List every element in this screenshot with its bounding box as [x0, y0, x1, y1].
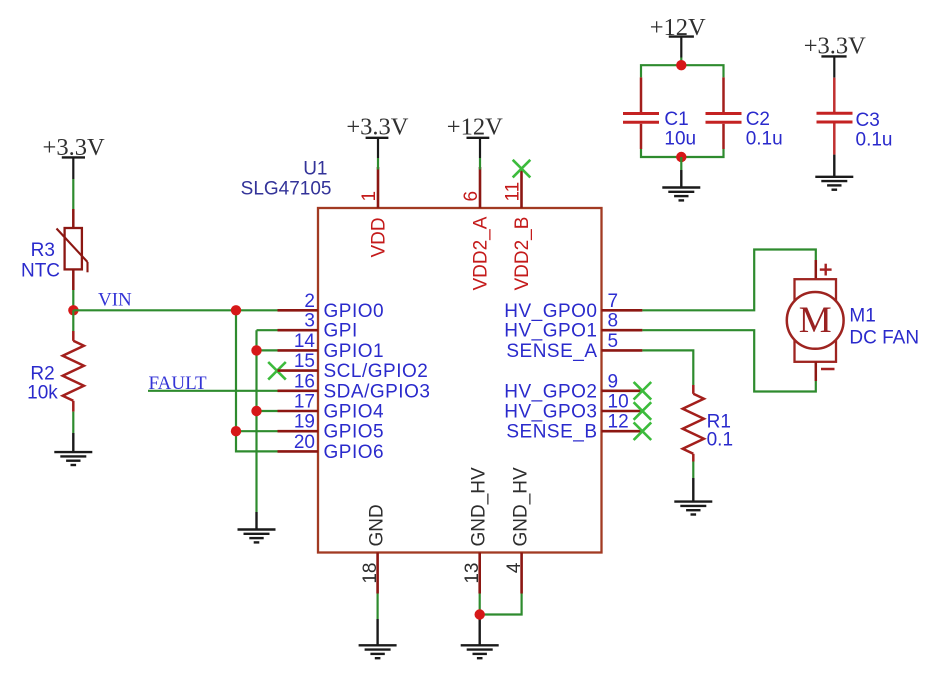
- wire branch to pin 19: [236, 430, 278, 432]
- svg-text:15: 15: [294, 351, 315, 372]
- power +3.3V (C3): [804, 32, 866, 77]
- wire vertical from VIN branch to pin 20 row: [236, 310, 278, 451]
- junction node VIN: [68, 305, 78, 315]
- junction at VIN / vertical: [231, 305, 241, 315]
- svg-text:4: 4: [504, 562, 525, 573]
- resistor R1: [683, 385, 704, 462]
- wire pin 7 to motor +: [642, 250, 815, 311]
- pin 16 SDA/GPIO3: [278, 371, 431, 402]
- wire pin 5 to R1: [642, 350, 693, 385]
- wire branch to pin 14: [257, 349, 278, 351]
- svg-text:M1: M1: [849, 305, 875, 326]
- ground (pin 18): [359, 619, 397, 658]
- svg-text:10: 10: [608, 392, 629, 413]
- svg-text:C3: C3: [856, 110, 880, 131]
- svg-text:20: 20: [294, 432, 315, 453]
- motor M1: [787, 260, 844, 381]
- wire FAULT to pin 16: [148, 390, 278, 392]
- no-connect X pin 12: [634, 422, 652, 440]
- svg-text:HV_GPO1: HV_GPO1: [504, 321, 597, 342]
- pin 4 GND_HV: [504, 467, 532, 594]
- svg-text:SENSE_B: SENSE_B: [506, 422, 597, 443]
- svg-text:16: 16: [294, 371, 315, 392]
- svg-text:7: 7: [608, 291, 619, 312]
- pin 7 HV_GPO0: [504, 291, 642, 322]
- svg-text:14: 14: [294, 331, 316, 352]
- wire pin 4 to junction: [480, 594, 522, 615]
- svg-text:1: 1: [359, 191, 380, 202]
- no-connect X pin 10: [634, 402, 652, 420]
- ground (pins 13/4): [461, 615, 499, 659]
- resistor R2: [63, 331, 84, 412]
- svg-text:U1: U1: [303, 158, 327, 179]
- op-amp U1 body SLG47105: [318, 208, 602, 553]
- wire top rail C1/C2: [641, 65, 724, 77]
- svg-text:0.1u: 0.1u: [746, 128, 783, 149]
- wire R1 to ground: [692, 462, 694, 479]
- no-connect X pin 9: [634, 382, 652, 400]
- svg-text:HV_GPO2: HV_GPO2: [504, 381, 597, 402]
- svg-text:VDD2_A: VDD2_A: [471, 216, 492, 290]
- wire rail to ground: [680, 157, 682, 170]
- junction top rail: [676, 60, 686, 70]
- svg-text:GND_HV: GND_HV: [511, 467, 532, 547]
- svg-text:VDD2_B: VDD2_B: [512, 217, 533, 291]
- svg-text:10k: 10k: [27, 382, 58, 403]
- svg-text:2: 2: [304, 291, 315, 312]
- pin 1 VDD: [359, 167, 390, 258]
- pin 11 VDD2_B: [503, 169, 534, 291]
- pin 13 GND_HV: [462, 467, 490, 594]
- wire R3 to node VIN: [72, 290, 74, 315]
- capacitor C1: [623, 77, 659, 149]
- svg-text:8: 8: [608, 311, 619, 332]
- pin 12 SENSE_B: [506, 412, 642, 443]
- junction bottom rail: [676, 152, 686, 162]
- no-connect X pin 11: [513, 160, 531, 178]
- wire bottom rail C1/C2: [641, 149, 724, 157]
- pin 17 GPIO4: [278, 392, 385, 423]
- wire pin 13 down: [479, 594, 481, 615]
- wire power to pin 1: [377, 158, 379, 170]
- svg-text:13: 13: [462, 563, 483, 584]
- junction at pin 14 branch: [251, 345, 261, 355]
- svg-text:18: 18: [360, 563, 381, 584]
- svg-text:0.1: 0.1: [707, 429, 733, 450]
- pin 14 GPIO1: [278, 331, 385, 362]
- wire R2 to ground: [72, 412, 74, 433]
- svg-text:C2: C2: [746, 109, 770, 130]
- pin 6 VDD2_A: [461, 167, 492, 291]
- wire power to rail: [680, 58, 682, 66]
- ground (below R2): [54, 433, 92, 465]
- svg-text:9: 9: [608, 371, 619, 392]
- svg-text:GND: GND: [367, 504, 388, 546]
- resistor R3 (NTC thermistor): [57, 209, 88, 290]
- svg-text:M: M: [799, 300, 832, 341]
- pin 3 GPI: [278, 311, 358, 342]
- svg-text:17: 17: [294, 392, 315, 413]
- wire branch to pin 17: [257, 410, 278, 412]
- svg-text:GPI: GPI: [324, 321, 358, 342]
- svg-text:SLG47105: SLG47105: [241, 178, 332, 199]
- svg-text:R3: R3: [31, 240, 55, 261]
- junction at pin 17 branch: [251, 406, 261, 416]
- svg-text:5: 5: [608, 331, 619, 352]
- power +12V (pin 6): [447, 113, 503, 158]
- svg-text:NTC: NTC: [21, 260, 60, 281]
- pin 2 GPIO0: [278, 291, 385, 322]
- wire vertical pins 3/14/17 to ground: [257, 329, 278, 331]
- svg-text:HV_GPO0: HV_GPO0: [504, 301, 597, 322]
- svg-text:VIN: VIN: [98, 290, 132, 311]
- svg-text:GPIO1: GPIO1: [324, 341, 385, 362]
- pin 10 HV_GPO3: [504, 392, 642, 423]
- wire pin 18 to ground: [377, 594, 379, 620]
- pin 15 SCL/GPIO2: [278, 351, 429, 382]
- wire +3.3V to R3: [72, 179, 74, 209]
- svg-text:11: 11: [503, 182, 524, 202]
- svg-text:DC FAN: DC FAN: [849, 328, 919, 349]
- svg-text:HV_GPO3: HV_GPO3: [504, 402, 597, 423]
- svg-text:GPIO6: GPIO6: [324, 442, 385, 463]
- svg-text:10u: 10u: [664, 128, 696, 149]
- junction GND_HV: [475, 609, 485, 619]
- svg-text:R2: R2: [30, 363, 54, 384]
- capacitor C3: [817, 78, 853, 155]
- capacitor C2: [706, 77, 742, 149]
- wire power to pin 6: [479, 158, 481, 170]
- svg-text:+3.3V: +3.3V: [346, 113, 408, 140]
- svg-text:+12V: +12V: [447, 113, 503, 140]
- svg-text:6: 6: [461, 191, 482, 202]
- junction at pin 19 branch: [231, 426, 241, 436]
- svg-text:SCL/GPIO2: SCL/GPIO2: [324, 361, 429, 382]
- svg-text:GND_HV: GND_HV: [469, 467, 490, 547]
- svg-text:3: 3: [304, 311, 315, 332]
- pin 8 HV_GPO1: [504, 311, 642, 342]
- ground (below R1): [674, 478, 712, 515]
- svg-text:GPIO0: GPIO0: [324, 301, 385, 322]
- ground (below GPIO net): [238, 512, 276, 542]
- svg-text:VDD: VDD: [369, 217, 390, 257]
- ground (C1/C2): [662, 170, 700, 200]
- power +3.3V (left, above R3): [43, 134, 105, 179]
- wire VIN to R2: [72, 310, 74, 331]
- wire VIN horizontal to pin 2: [73, 309, 277, 311]
- svg-text:C1: C1: [664, 109, 688, 130]
- wire pin 8 to motor -: [642, 330, 815, 391]
- svg-text:19: 19: [294, 412, 315, 433]
- pin 18 GND: [360, 504, 388, 593]
- wire: [255, 330, 257, 512]
- ground (C3): [815, 155, 853, 190]
- pin 5 SENSE_A: [506, 331, 642, 362]
- no-connect X pin 15: [268, 362, 286, 380]
- svg-text:GPIO5: GPIO5: [324, 422, 385, 443]
- svg-text:GPIO4: GPIO4: [324, 402, 385, 423]
- pin 19 GPIO5: [278, 412, 385, 443]
- pin 20 GPIO6: [278, 432, 385, 463]
- svg-text:SDA/GPIO3: SDA/GPIO3: [324, 381, 431, 402]
- power +3.3V (pin 1): [346, 113, 408, 158]
- svg-text:0.1u: 0.1u: [856, 129, 893, 150]
- pin 9 HV_GPO2: [504, 371, 642, 402]
- svg-text:12: 12: [608, 412, 629, 433]
- power +12V (C1/C2): [650, 14, 706, 58]
- svg-text:SENSE_A: SENSE_A: [506, 341, 597, 362]
